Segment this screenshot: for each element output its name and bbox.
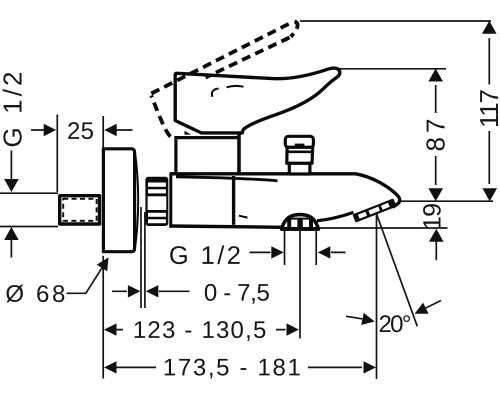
svg-text:173,5 - 181: 173,5 - 181 — [163, 354, 301, 381]
wire: reference line from lever tip — [336, 68, 446, 70]
dimension 0 - 7,5 — [112, 280, 270, 307]
dimension 173,5 - 181 — [104, 354, 376, 381]
extension lines (wall plane, escutcheon face, outlet axes, 20-degree ray) — [57, 115, 417, 380]
lever handle — [175, 68, 340, 134]
svg-text:123 - 130,5: 123 - 130,5 — [133, 317, 267, 344]
label diameter 68 — [5, 254, 113, 308]
svg-text:87: 87 — [421, 119, 451, 152]
hex nut — [145, 177, 168, 226]
dimension 117 — [474, 21, 500, 201]
wire: pipe top edge extension — [0, 192, 58, 194]
wire: pipe bottom edge extension — [0, 226, 58, 228]
faucet body and spout — [169, 174, 399, 228]
svg-text:20°: 20° — [378, 311, 411, 338]
wall escutcheon — [103, 149, 138, 252]
svg-text:117: 117 — [474, 89, 500, 128]
svg-text:0 - 7,5: 0 - 7,5 — [204, 280, 270, 307]
wire: reference line body underside — [318, 227, 447, 229]
lever handle raised (dashed) — [151, 22, 297, 137]
dimension 19 — [419, 203, 447, 260]
svg-text:G 1/2: G 1/2 — [0, 72, 28, 148]
dimension 20 degrees — [346, 301, 441, 338]
dimension 123 - 130,5 — [104, 317, 299, 344]
svg-text:Ø 68: Ø 68 — [5, 281, 65, 308]
diverter knob — [285, 136, 313, 174]
pipe nipple — [60, 196, 100, 224]
cartridge housing — [174, 124, 240, 174]
svg-text:G 1/2: G 1/2 — [169, 242, 241, 270]
wire: reference line from spout tip — [400, 200, 493, 202]
label G 1/2 left — [0, 72, 28, 258]
aerator — [352, 198, 396, 222]
dimension 87 — [421, 69, 451, 202]
dimension 25 — [31, 118, 133, 145]
svg-text:25: 25 — [67, 118, 94, 145]
wire: reference line top (handle raised height) — [300, 20, 491, 22]
shower hose outlet dome — [281, 215, 320, 231]
svg-text:19: 19 — [419, 203, 447, 230]
label G 1/2 bottom — [169, 242, 346, 270]
